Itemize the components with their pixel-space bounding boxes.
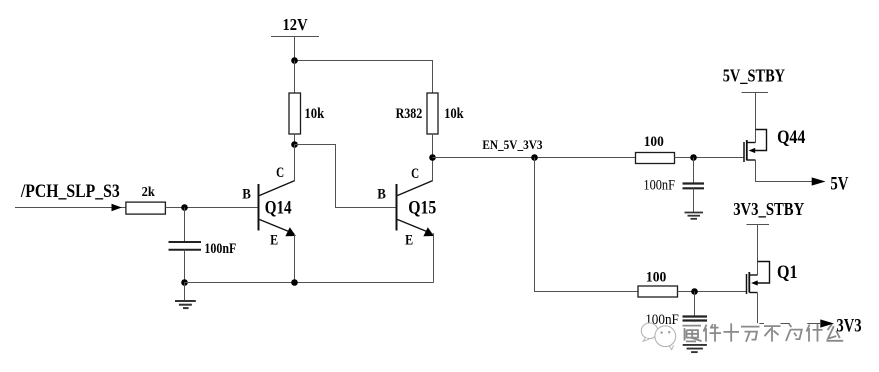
node branch junction <box>531 154 538 161</box>
wire down to capacitor C3 <box>694 292 696 317</box>
resistor R382 10k (right pullup) <box>427 93 438 134</box>
wire Q1 drain to 3V3 <box>758 293 821 324</box>
svg-text:C: C <box>411 166 419 182</box>
svg-text:Q14: Q14 <box>265 197 292 218</box>
transistor Q44 (PMOS) <box>744 130 767 163</box>
svg-text:3V3: 3V3 <box>836 316 861 337</box>
node Q14 emitter junction <box>291 279 298 286</box>
svg-text:100: 100 <box>646 270 666 286</box>
3V3 output arrowhead <box>820 319 834 327</box>
wire 12V down to R1 <box>294 61 296 94</box>
wire R1 bottom to node A <box>294 134 296 145</box>
transistor Q1 (PMOS) <box>747 262 770 295</box>
svg-text:100nF: 100nF <box>204 241 236 257</box>
svg-text:10k: 10k <box>304 106 324 122</box>
resistor 2k <box>126 202 165 214</box>
svg-text:Q15: Q15 <box>408 197 436 218</box>
resistor 100 (upper) <box>636 153 675 164</box>
node A (Q14 collector) <box>291 141 298 148</box>
svg-text:100: 100 <box>644 134 664 150</box>
svg-text:B: B <box>377 186 386 202</box>
wire bottom emitter rail <box>185 282 434 284</box>
svg-text:2k: 2k <box>142 185 155 200</box>
wire 100 to Q1 gate <box>678 291 747 293</box>
wire Q44 drain to 5V <box>756 160 813 182</box>
svg-text:C: C <box>276 165 284 181</box>
svg-text:5V_STBY: 5V_STBY <box>723 65 785 85</box>
Q14 emitter arrowhead <box>285 227 296 236</box>
ground (C2) <box>685 213 704 219</box>
ground (C3) <box>683 345 707 352</box>
svg-text:Q44: Q44 <box>777 127 805 148</box>
node Q1 gate RC <box>691 288 698 295</box>
ground (main) <box>175 301 196 308</box>
wire to ground <box>184 283 186 302</box>
svg-text:E: E <box>270 233 278 249</box>
svg-text:B: B <box>242 186 251 202</box>
watermark text 硬件十万个为什么 <box>683 323 844 341</box>
wire 5V_STBY to Q44 source <box>755 93 757 143</box>
svg-text:10k: 10k <box>444 106 464 122</box>
wire 2k to Q14 base <box>166 207 259 209</box>
wire input /PCH_SLP_S3 with arrow <box>15 207 126 209</box>
resistor 10k (left pullup) <box>289 93 301 134</box>
wire R382 bottom to node EN <box>432 134 434 158</box>
node junction on 12V rail <box>291 57 298 64</box>
capacitor C1 100nF <box>169 242 202 250</box>
power 5V_STBY symbol <box>742 92 769 94</box>
wire branch down to lower gate resistor <box>535 158 639 292</box>
transistor Q14 (NPN) <box>259 181 295 233</box>
wire 3V3_STBY to Q1 source <box>757 225 759 276</box>
wire 12V rail to R382 <box>295 61 433 94</box>
svg-text:5V: 5V <box>830 173 848 194</box>
wire 100 to Q44 gate <box>675 157 745 159</box>
Q15 emitter wire <box>433 234 434 283</box>
5V output arrowhead <box>812 177 826 185</box>
resistor 100 (lower) <box>638 286 678 297</box>
wire node B down to capacitor C1 <box>184 208 186 242</box>
wire C2 to ground <box>693 188 695 212</box>
Q14 emitter wire <box>294 234 296 283</box>
wire down to capacitor C2 <box>693 158 695 184</box>
svg-text:EN_5V_3V3: EN_5V_3V3 <box>482 138 542 152</box>
svg-text:E: E <box>405 233 413 249</box>
Q15 collector wire <box>432 158 434 181</box>
node B (base RC node) <box>181 204 188 211</box>
wire C3 to ground <box>694 321 696 345</box>
node C1 bottom junction <box>181 279 188 286</box>
svg-text:R382: R382 <box>396 106 423 122</box>
svg-text:100nF: 100nF <box>643 177 675 193</box>
watermark logo bubbles <box>641 323 675 350</box>
Q44 body arrowhead <box>749 148 756 153</box>
node EN_5V_3V3 <box>429 154 436 161</box>
Q15 emitter arrowhead <box>423 227 434 236</box>
wire C1 to bottom rail <box>184 250 186 283</box>
svg-text:/PCH_SLP_S3: /PCH_SLP_S3 <box>20 181 120 202</box>
node Q44 gate RC <box>690 154 697 161</box>
svg-text:12V: 12V <box>283 15 309 34</box>
power 3V3_STBY symbol <box>747 224 770 226</box>
Q1 body arrowhead <box>751 280 758 285</box>
Q14 collector wire <box>294 145 296 181</box>
svg-text:3V3_STBY: 3V3_STBY <box>733 199 804 219</box>
wire EN_5V_3V3 rail <box>433 157 636 159</box>
power 12V symbol <box>271 37 319 62</box>
wire cross-couple Q14 collector to Q15 base <box>295 145 397 208</box>
capacitor C2 100nF <box>683 184 705 189</box>
svg-text:Q1: Q1 <box>777 262 798 283</box>
capacitor C3 100nF <box>683 317 708 321</box>
transistor Q15 (NPN) <box>397 181 433 233</box>
